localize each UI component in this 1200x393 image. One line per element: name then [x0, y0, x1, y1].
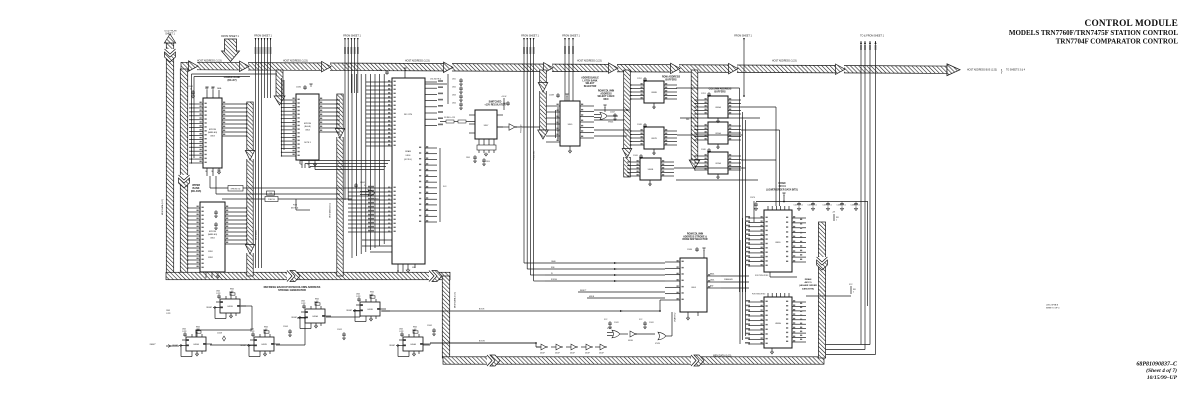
svg-text:C1049: C1049: [283, 326, 288, 328]
bus arrow stub epom2 feed: [276, 70, 283, 96]
svg-text:DR REG +12V: DR REG +12V: [444, 117, 456, 119]
U604 outputs to dram: [721, 275, 749, 277]
svg-text:RESET*: RESET*: [580, 290, 587, 292]
svg-text:0.1: 0.1: [830, 205, 832, 207]
svg-text:1.2PF: 1.2PF: [301, 303, 306, 305]
svg-text:MEM DATA (0:15): MEM DATA (0:15): [161, 199, 164, 215]
U806 bottom gnd: [407, 264, 409, 270]
wires latch to buffers: [594, 109, 630, 111]
svg-text:FROM SHEET 1: FROM SHEET 1: [221, 35, 239, 38]
svg-text:DRAM: DRAM: [779, 182, 786, 185]
select xor gate U806B: [600, 112, 607, 119]
svg-text:R81: R81: [836, 217, 839, 219]
svg-text:U614F: U614F: [599, 353, 604, 355]
eprom U804 bottom pins: [301, 160, 303, 168]
U806 lower left address pins: [348, 187, 392, 189]
svg-text:C1152: C1152: [637, 78, 642, 80]
svg-text:U401B: U401B: [227, 306, 233, 308]
svg-text:TO & FROM: TO & FROM: [164, 31, 177, 33]
svg-text:C1062: C1062: [427, 325, 432, 327]
wire bundle colbuf outputs down: [775, 107, 777, 206]
svg-text:RESET: RESET: [346, 310, 352, 312]
svg-text:CS1 (NOTE 4): CS1 (NOTE 4): [430, 79, 441, 81]
crossing wires at buffers: [680, 117, 760, 119]
dram left feed verticals: [739, 240, 741, 344]
svg-text:0.1: 0.1: [815, 205, 817, 207]
svg-text:HOST ADDRESS (1:23): HOST ADDRESS (1:23): [577, 60, 602, 63]
latch bottom gnd: [569, 146, 571, 151]
svg-text:ROFSE: ROFSE: [551, 279, 558, 281]
svg-text:BOOW: BOOW: [479, 341, 485, 343]
U806 top right cs wires: [425, 81, 437, 83]
svg-text:BUFFERS: BUFFERS: [714, 91, 726, 94]
svg-text:SELECT LOGIC: SELECT LOGIC: [598, 96, 615, 98]
svg-text:C1042: C1042: [360, 182, 365, 184]
svg-text:4M X 9: 4M X 9: [778, 185, 786, 188]
svg-text:1.2PF: 1.2PF: [399, 331, 404, 333]
svg-text:U403A: U403A: [312, 315, 318, 318]
svg-text:FROM SHEET 1: FROM SHEET 1: [521, 35, 539, 38]
bus to-from sheet1 left vertical: [166, 43, 173, 273]
svg-text:SRAM: SRAM: [405, 150, 411, 153]
svg-text:U707B: U707B: [655, 343, 660, 345]
svg-text:+14.3V: +14.3V: [501, 96, 507, 98]
svg-text:C1036: C1036: [701, 149, 706, 151]
timer U403A: [305, 309, 325, 323]
svg-text:ROW/COLUMN: ROW/COLUMN: [598, 91, 615, 93]
svg-text:C1038: C1038: [637, 124, 642, 126]
svg-text:CONTROL MODULE: CONTROL MODULE: [1085, 19, 1178, 29]
inverter chain bottom: [541, 344, 546, 350]
wire group E: [564, 38, 566, 101]
svg-text:A/W: A/W: [710, 285, 714, 288]
boxed label PGM 700: [265, 197, 278, 202]
dram decoupling cap rail: [756, 201, 868, 203]
wire bundle buffers to dram vertical: [739, 104, 741, 292]
dram U809 lower: [764, 210, 792, 272]
svg-text:SHEET 3 OF 4: SHEET 3 OF 4: [1046, 307, 1060, 309]
svg-text:FROM SHEET 1: FROM SHEET 1: [254, 35, 272, 38]
buffer U610: [630, 331, 636, 337]
wire group C: [344, 38, 346, 200]
regulator caps below: [474, 155, 476, 157]
svg-text:C803: C803: [452, 95, 456, 97]
svg-text:U809B: U809B: [648, 169, 654, 171]
svg-text:(Sheet 4 of 7): (Sheet 4 of 7): [1146, 367, 1177, 374]
vertical bus latch feed: [540, 70, 547, 130]
wire group D long verticals: [523, 38, 525, 263]
svg-text:HOST ADDRESS (1:23): HOST ADDRESS (1:23): [283, 60, 308, 63]
svg-text:DRAM A/W: DRAM A/W: [724, 278, 733, 281]
svg-text:HOST ADDRESS (1:23): HOST ADDRESS (1:23): [405, 60, 430, 63]
svg-text:SEL: SEL: [686, 119, 690, 121]
svg-text:DRAM R/W: DRAM R/W: [674, 312, 677, 322]
svg-text:U402A: U402A: [193, 343, 199, 346]
U604 bottom pins: [687, 312, 689, 318]
svg-text:MODELS TRN7760F/TRN7475F STATI: MODELS TRN7760F/TRN7475F STATION CONTROL: [1009, 29, 1178, 37]
svg-text:MEM DATA (0:15): MEM DATA (0:15): [454, 292, 457, 308]
xor gate U806C: [368, 190, 375, 196]
column buffer U810x: [708, 122, 728, 144]
svg-text:ADDRESSABLE: ADDRESSABLE: [581, 77, 599, 80]
mem data mid horizontal bus: [166, 272, 450, 279]
svg-text:C1153: C1153: [701, 93, 706, 95]
eprom U802 bottom pins: [205, 272, 207, 278]
svg-text:C1089: C1089: [549, 95, 554, 97]
latch U805: [557, 107, 559, 141]
svg-text:HOST ADDRESS (1:23): HOST ADDRESS (1:23): [772, 60, 797, 63]
svg-text:R81: R81: [853, 289, 856, 291]
svg-text:U807: U807: [484, 125, 489, 127]
svg-text:(D8–D15): (D8–D15): [191, 190, 202, 193]
label boor wire: [390, 310, 660, 312]
svg-text:HOST ADDRESS (1:23): HOST ADDRESS (1:23): [197, 60, 222, 63]
svg-text:(NOTE 4): (NOTE 4): [291, 208, 299, 210]
dram U810 pin labels left: [745, 300, 750, 302]
svg-text:C1031: C1031: [614, 322, 619, 324]
svg-text:C1076: C1076: [750, 197, 755, 199]
svg-text:BOOR: BOOR: [479, 309, 485, 311]
boxed label 10K: [267, 191, 275, 195]
svg-text:VR802: VR802: [208, 257, 213, 259]
svg-text:C1052: C1052: [337, 329, 342, 331]
svg-text:LATCH BANK: LATCH BANK: [583, 79, 598, 82]
svg-text:CE: CE: [205, 171, 207, 173]
svg-text:C1047: C1047: [610, 112, 615, 114]
svg-text:SELECT: SELECT: [585, 83, 595, 85]
svg-text:U807B: U807B: [651, 138, 657, 140]
svg-text:DATA BITS): DATA BITS): [802, 287, 814, 290]
svg-text:CASL: CASL: [710, 279, 714, 282]
svg-text:RESET: RESET: [240, 345, 246, 347]
svg-text:FOR TVIN W RDI: FOR TVIN W RDI: [752, 294, 766, 296]
dram U809 bottom pins: [769, 272, 771, 277]
vcc at dram top: [783, 193, 785, 196]
svg-text:EPROM 700: EPROM 700: [231, 189, 241, 191]
svg-text:0.1: 0.1: [858, 205, 860, 207]
svg-text:DRAM: DRAM: [805, 278, 812, 281]
svg-text:SHEET 1: SHEET 1: [165, 33, 175, 35]
svg-text:1.2PF: 1.2PF: [182, 331, 187, 333]
svg-text:U610E: U610E: [628, 340, 633, 342]
or gate U707B: [658, 332, 666, 340]
svg-text:1.2PF: 1.2PF: [250, 331, 255, 333]
svg-text:FOR TVIN W RDI: FOR TVIN W RDI: [755, 275, 769, 277]
svg-text:U811A: U811A: [715, 162, 721, 165]
svg-text:C807: C807: [378, 70, 382, 72]
mem data mid-right vertical bus: [442, 276, 449, 358]
svg-text:NOTE 3: NOTE 3: [304, 142, 311, 144]
svg-text:MUX: MUX: [603, 99, 609, 101]
hatched arrow from sheet 1 into top bus: [222, 39, 240, 62]
svg-text:(BANK A B): (BANK A B): [208, 131, 218, 134]
svg-text:HOST ADDRESS BUS (1:23): HOST ADDRESS BUS (1:23): [967, 68, 997, 71]
svg-text:C845: C845: [196, 329, 200, 331]
bus corner left vertical from top bus: [180, 69, 187, 273]
svg-text:68P81090837–C: 68P81090837–C: [1136, 362, 1178, 368]
regulator buffer triangle: [509, 124, 515, 131]
selector U604: [680, 258, 707, 312]
svg-text:N.C.: N.C.: [443, 186, 447, 188]
svg-text:U802: U802: [210, 238, 215, 240]
U604 reset wire: [578, 291, 665, 293]
svg-text:0.1: 0.1: [844, 205, 846, 207]
svg-text:OE: OE: [307, 164, 309, 166]
U806 bottom stubs to mid bus: [397, 264, 399, 272]
svg-text:PROG 12V: PROG 12V: [521, 124, 523, 133]
svg-text:STROBE GENERATOR: STROBE GENERATOR: [278, 288, 306, 292]
svg-text:U403B: U403B: [367, 309, 373, 311]
dram U809 pin labels left: [745, 216, 750, 218]
svg-text:LVDL 6P3B B: LVDL 6P3B B: [1046, 305, 1059, 307]
eprom U804 mid bank: [296, 94, 319, 160]
svg-text:RASL: RASL: [710, 273, 714, 276]
svg-text:C804: C804: [452, 103, 456, 105]
svg-text:1.2PF: 1.2PF: [216, 293, 221, 295]
U604 long input wires: [545, 262, 665, 264]
svg-text:U404A: U404A: [410, 343, 416, 346]
svg-text:EPROM: EPROM: [209, 231, 216, 233]
svg-text:(LOWER ORDER DATA BITS): (LOWER ORDER DATA BITS): [766, 188, 798, 191]
vertical bus eprom1 to mid: [247, 102, 253, 276]
host address bus horizontal top: [181, 60, 960, 76]
U806 lower-left pin labels: [368, 186, 374, 188]
svg-text:0.1: 0.1: [364, 185, 366, 187]
svg-text:RE1 CPM: RE1 CPM: [404, 114, 412, 116]
svg-text:(HIGHER ORDER: (HIGHER ORDER: [799, 285, 817, 287]
svg-text:RESET*: RESET*: [150, 344, 157, 346]
svg-text:U611F: U611F: [555, 353, 560, 355]
svg-text:BUFFERS: BUFFERS: [665, 79, 677, 82]
timer U402A: [186, 337, 206, 351]
svg-text:C809: C809: [466, 157, 470, 159]
svg-text:C1084: C1084: [296, 87, 301, 89]
eprom U804 feed wires: [281, 78, 283, 156]
svg-text:VR806: VR806: [608, 122, 613, 124]
svg-text:3: 3: [853, 292, 854, 294]
svg-text:U808B: U808B: [651, 92, 657, 94]
timer long output wires right: [381, 310, 390, 312]
svg-text:FROM SHEET 1: FROM SHEET 1: [562, 35, 580, 38]
dram data vertical bus: [818, 222, 825, 358]
timer U402B: [254, 337, 274, 351]
regulator bottom pins: [478, 139, 480, 145]
label boow wire: [430, 342, 536, 344]
wire bundle below eprom U804: [299, 161, 301, 165]
timer U401B: [220, 299, 240, 313]
or gate U707D: [612, 330, 620, 338]
svg-text:U809A: U809A: [715, 106, 721, 109]
sram U806 (note 4): [392, 78, 425, 264]
svg-text:C1034: C1034: [633, 155, 638, 157]
svg-text:1.2PF: 1.2PF: [166, 313, 171, 315]
svg-text:MEM DATA: MEM DATA: [255, 230, 258, 240]
U806 right NC bracket: [439, 148, 441, 222]
vertical wire channel left of U806: [351, 74, 353, 258]
svg-text:C1086: C1086: [687, 249, 692, 251]
svg-text:EPROM: EPROM: [304, 123, 311, 125]
svg-text:(D0–D7): (D0–D7): [227, 79, 236, 82]
svg-text:U613F: U613F: [585, 353, 590, 355]
svg-text:U806C: U806C: [374, 199, 380, 201]
eprom U803 feed wires from bus: [191, 74, 193, 163]
svg-text:0.1: 0.1: [801, 205, 803, 207]
svg-text:U810A: U810A: [715, 132, 721, 135]
svg-text:TO & FROM SHEET 1: TO & FROM SHEET 1: [860, 35, 884, 38]
svg-text:0.1: 0.1: [190, 89, 192, 91]
svg-text:ADDRESS STROBE &: ADDRESS STROBE &: [683, 235, 707, 238]
eprom U803 lower bank: [203, 98, 222, 168]
vertical bus column buffers feed: [691, 70, 698, 160]
svg-text:FROM SHEET 1: FROM SHEET 1: [343, 35, 361, 38]
eprom U803 bottom pins: [206, 168, 208, 176]
svg-text:C801: C801: [452, 79, 456, 81]
boxed label EPROM 700: [228, 186, 243, 192]
svg-text:(BANK A B): (BANK A B): [208, 233, 218, 236]
svg-text:DRAM R/W SELECTOR: DRAM R/W SELECTOR: [682, 238, 707, 241]
svg-text:RESET: RESET: [206, 307, 212, 309]
svg-text:U803: U803: [210, 136, 215, 138]
dram U810 bottom: [771, 348, 773, 352]
svg-text:2: 2: [836, 220, 837, 222]
svg-text:CE: CE: [300, 164, 302, 166]
wire group right side long loop: [860, 41, 862, 345]
mem data bottom horizontal bus: [443, 357, 824, 364]
svg-text:ROW/COLUMN: ROW/COLUMN: [687, 234, 704, 236]
timer interconnect wires: [166, 345, 179, 347]
svg-text:PGM: PGM: [293, 205, 297, 207]
svg-text:SELECTOR: SELECTOR: [584, 86, 597, 88]
svg-text:RESET: RESET: [291, 317, 297, 319]
eprom U802 inner components: [215, 210, 217, 212]
svg-text:C1091: C1091: [649, 322, 654, 324]
svg-text:1.2PF: 1.2PF: [356, 296, 361, 298]
wire group B: [255, 38, 257, 268]
wire eprom select run2: [215, 176, 217, 194]
svg-text:U809L: U809L: [775, 242, 781, 244]
svg-text:U402B: U402B: [261, 344, 267, 346]
svg-text:C810: C810: [486, 161, 490, 163]
vertical bus row buffers feed: [624, 70, 631, 177]
svg-text:OE: OE: [211, 171, 213, 173]
svg-text:U804: U804: [305, 130, 310, 132]
svg-text:HSB B: HSB B: [589, 296, 595, 298]
timer U403B: [360, 302, 380, 316]
svg-text:ADDRESS: ADDRESS: [600, 92, 612, 95]
svg-text:FROM SHEET 1: FROM SHEET 1: [734, 35, 752, 38]
svg-text:U809H: U809H: [775, 323, 782, 325]
vertical bus eprom2-right to mid: [337, 94, 343, 276]
svg-text:C1048: C1048: [217, 333, 222, 335]
svg-text:MEM DATA (0:15): MEM DATA (0:15): [713, 355, 732, 358]
svg-text:(Bk A B): (Bk A B): [304, 125, 311, 128]
wire eprom select run1: [209, 176, 211, 188]
svg-text:U604: U604: [691, 287, 696, 289]
svg-text:C843: C843: [166, 310, 170, 312]
svg-text:PGM 700: PGM 700: [268, 199, 275, 201]
timer U404A: [403, 337, 423, 351]
svg-text:U805: U805: [568, 124, 573, 126]
svg-text:TO SHEETS 3 & 4: TO SHEETS 3 & 4: [1006, 69, 1026, 71]
svg-text:MEM DATA (0:15): MEM DATA (0:15): [329, 203, 332, 218]
svg-text:RESET: RESET: [389, 345, 395, 347]
right loop horizontals to dram bus: [826, 344, 870, 346]
svg-text:VR801: VR801: [208, 251, 213, 253]
regulator U807: [475, 110, 497, 139]
dram section enclosure line: [867, 201, 869, 306]
svg-text:U610F: U610F: [540, 353, 545, 355]
junction dots: [743, 95, 745, 97]
svg-text:C802: C802: [452, 87, 456, 89]
svg-text:4M X 9: 4M X 9: [805, 281, 813, 284]
svg-text:10/15/99–UP: 10/15/99–UP: [1147, 375, 1178, 381]
svg-text:EPROM: EPROM: [209, 129, 216, 131]
eprom U802 upper bank: [200, 202, 225, 272]
svg-text:U612F: U612F: [570, 353, 575, 355]
svg-text:TRN7704F COMPARATOR CONTROL: TRN7704F COMPARATOR CONTROL: [1056, 37, 1179, 45]
svg-text:(NOTE 4): (NOTE 4): [404, 159, 412, 161]
